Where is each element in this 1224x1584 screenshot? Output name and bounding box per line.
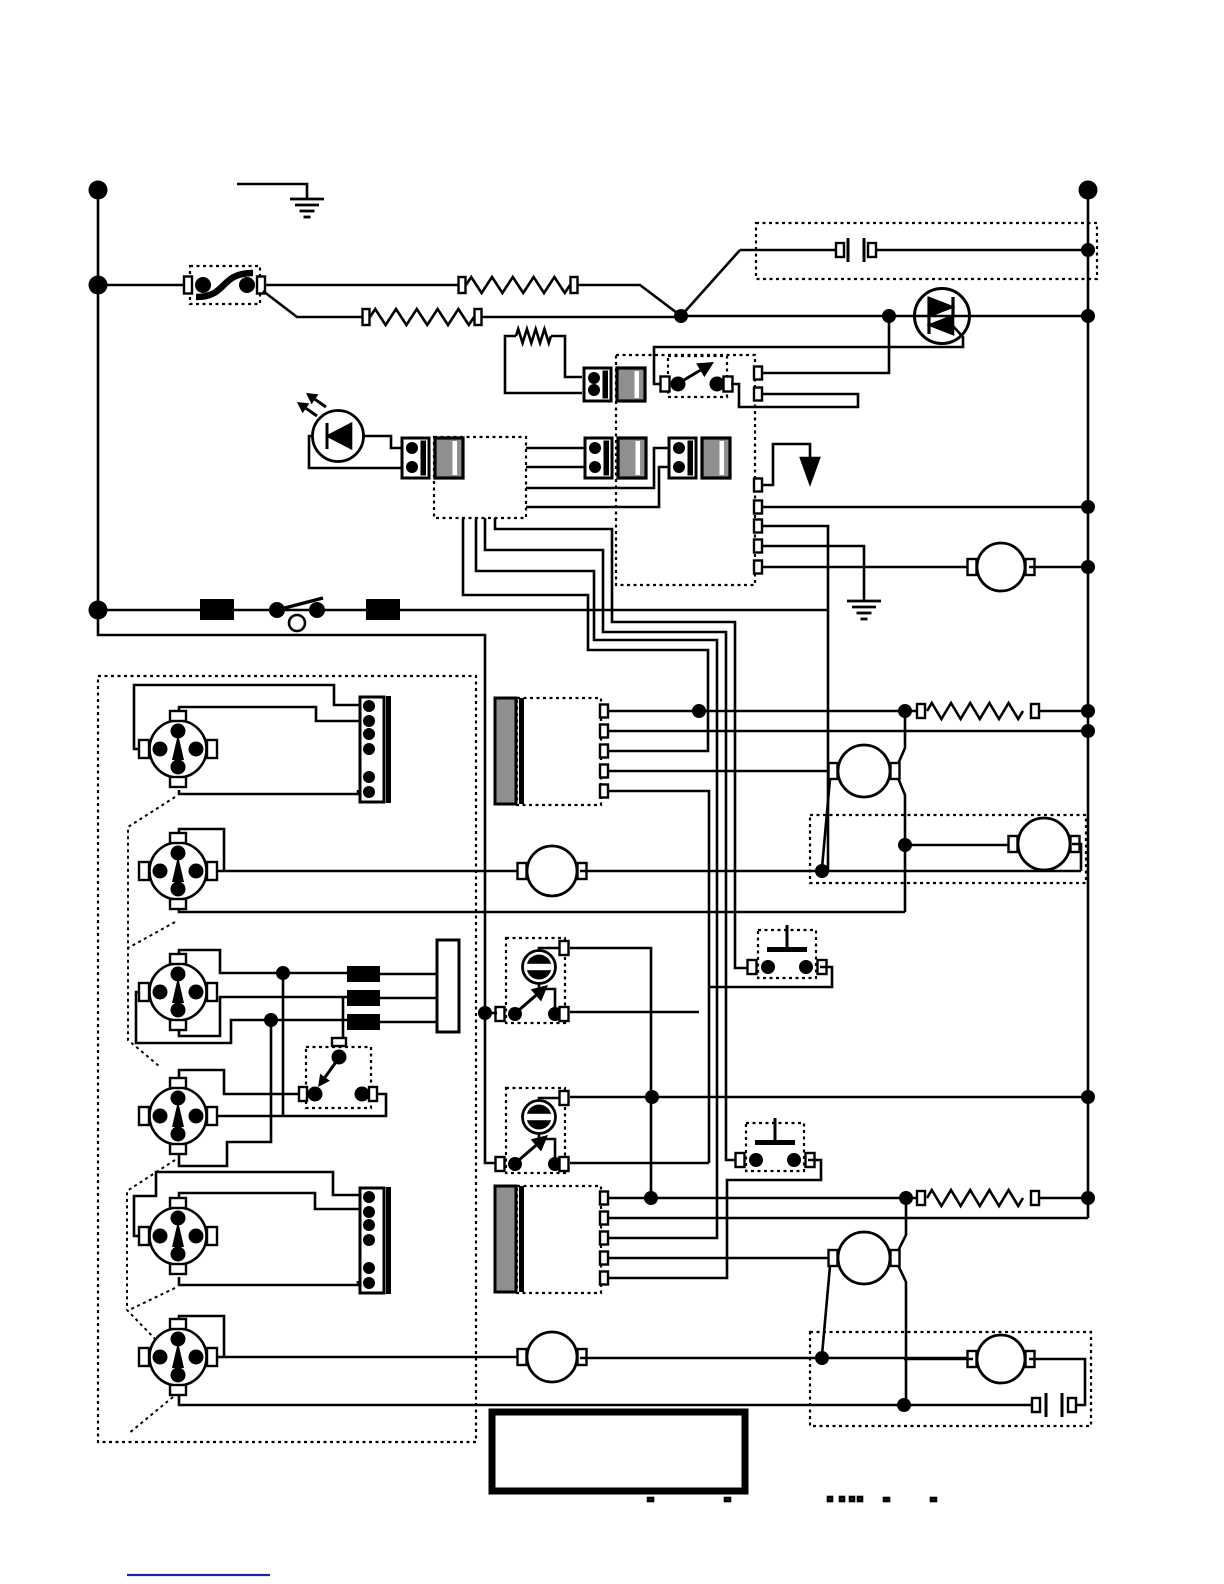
pin B5 — [600, 1272, 608, 1285]
wire (igniter1 S to pin6) — [179, 790, 358, 794]
pin (board pin y507) — [754, 501, 762, 514]
label box — [492, 1412, 745, 1491]
motor M6 (oven fan 2) — [829, 1250, 838, 1266]
pin A4 — [600, 765, 608, 778]
connector P2 (6-pin) — [360, 1188, 384, 1293]
right bus wire — [1087, 190, 1090, 1218]
pin A5 — [600, 785, 608, 798]
motor M3 (oven fan) — [829, 763, 838, 779]
wire — [1029, 566, 1088, 569]
resistor R4 — [917, 704, 925, 718]
wire (switch to igniter4 E) — [216, 1094, 386, 1116]
oven thermostat TH2 (dotted) — [506, 1088, 565, 1173]
connector pair J4 (row2b) — [669, 438, 696, 478]
node — [898, 704, 912, 718]
node (right bus y567) — [1081, 560, 1095, 574]
wire (TH2 top line) — [570, 1096, 1088, 1099]
spark module B (grey connector + dotted box) — [495, 1186, 516, 1292]
fuse F2 — [366, 599, 400, 620]
wire — [526, 466, 585, 469]
wire (igniter4 S riser) — [179, 1020, 271, 1166]
pin A3 — [600, 745, 608, 758]
wire — [580, 870, 1081, 873]
wire (A4 to motor M3) — [608, 770, 832, 773]
wire (M3 tap to M5) — [905, 844, 1016, 847]
push button PB2 (dotted) — [746, 1123, 804, 1171]
triac Q1 — [915, 289, 970, 344]
capacitor C1 — [740, 249, 840, 252]
link (dotted mechanical) — [127, 1160, 175, 1342]
wire — [97, 190, 100, 610]
link (dotted mechanical) — [128, 797, 175, 1066]
wire W2 (harness) — [476, 518, 717, 1238]
node (right bus, capacitor) — [1081, 243, 1095, 257]
wire (triac gate) — [654, 325, 963, 384]
spark switch SW3 (igniter symbol) — [150, 964, 207, 1021]
wire — [607, 1160, 821, 1278]
node — [264, 1013, 278, 1027]
ground (top) — [237, 184, 307, 199]
node (motor M3 tap) — [815, 864, 829, 878]
wire (to L bus) — [762, 526, 828, 610]
control board (dotted outline) — [616, 355, 755, 585]
wire — [380, 973, 437, 976]
wire (A5 riser) — [608, 791, 709, 1163]
wire — [1039, 710, 1088, 713]
node (right bus y1198) — [1081, 1191, 1095, 1205]
pin B2 — [600, 1212, 608, 1225]
bake element (loop bar) — [731, 384, 858, 407]
resistor R2 (second line) — [363, 309, 370, 325]
resistor R5 — [917, 1191, 925, 1205]
ignition bar (electrode block) — [437, 940, 459, 1032]
wire (igniter3 N) — [179, 950, 347, 973]
wire (igniter6 E line) — [217, 1356, 524, 1359]
pin B1 — [600, 1192, 608, 1205]
wire — [762, 566, 973, 569]
oven thermostat TH1 (dotted) — [506, 938, 565, 1023]
wire (TH1 out riser) — [570, 1011, 699, 1014]
spark switch SW6 (igniter symbol) — [150, 1329, 207, 1386]
spark switch SW5 (igniter symbol) — [150, 1208, 207, 1265]
node (motor M6 tap) — [815, 1351, 829, 1365]
choke L2 — [347, 990, 380, 1006]
valve switch SW7 (dotted) — [332, 1038, 346, 1046]
chassis arrow (to ground) — [762, 444, 810, 485]
wire (igniter5 W to pin1) — [134, 1172, 360, 1236]
wire (M3 left drop) — [822, 779, 830, 868]
wire — [380, 997, 437, 1000]
wire (C2 to M7 loop) — [1029, 1359, 1085, 1405]
wire (igniter2 E line) — [217, 870, 524, 873]
node (thermostat feed) — [478, 1006, 492, 1020]
wire (igniter2 S line) — [179, 905, 905, 912]
wire — [526, 467, 669, 507]
wire — [98, 284, 186, 287]
ground (center) — [847, 600, 881, 603]
resistor R1 (top line) — [459, 277, 466, 293]
node — [897, 1398, 911, 1412]
wire — [380, 1021, 437, 1024]
wire (igniter6 S line) — [179, 1390, 904, 1405]
node — [898, 838, 912, 852]
wire (igniter1 N to pin2) — [179, 707, 360, 721]
connector pair J3 (row2a) — [585, 438, 612, 478]
motor M2 (burner motor) — [518, 863, 527, 879]
wire — [526, 447, 585, 450]
wire (main line to triac) — [681, 315, 1088, 318]
switch S1 (door) — [269, 602, 285, 618]
spark switch SW4 (igniter symbol) — [150, 1088, 207, 1145]
wire W3 (harness) — [485, 518, 737, 1160]
pin B4 — [600, 1252, 608, 1265]
wire (M6 right riser) — [898, 1198, 906, 1251]
wire — [580, 1357, 822, 1360]
pin (board pin y373) — [754, 367, 762, 380]
burner group (big dotted outline) — [98, 676, 476, 1442]
wire (igniter4 N to switch) — [179, 1070, 299, 1094]
node (right bus y711) — [1081, 704, 1095, 718]
wire — [265, 284, 459, 287]
wire (igniter5 S to pin6) — [179, 1277, 358, 1285]
node L1 supply (top-left) — [89, 181, 108, 200]
node — [276, 966, 290, 980]
capacitor C2 — [904, 1404, 1034, 1407]
wire (igniter1 W to pin1) — [134, 685, 360, 749]
node (right bus y731) — [1081, 724, 1095, 738]
pin (board pin y546) — [754, 540, 762, 553]
connector P1 (6-pin) — [360, 697, 384, 802]
node — [645, 1090, 659, 1104]
node (L bus corner) — [89, 601, 108, 620]
pin (board pin y485) — [754, 479, 762, 492]
spark module A (grey connector + dotted box) — [495, 698, 516, 804]
wire (TH2 out riser) — [570, 1162, 709, 1165]
wire — [608, 730, 1088, 733]
thermal limiter TOD (dotted box with S-contact) — [190, 266, 260, 304]
wire (riser to L bus) — [827, 610, 830, 871]
wire (TH1 top to riser) — [570, 948, 651, 1198]
node — [644, 1191, 658, 1205]
node — [692, 704, 706, 718]
relay K1 (dotted box) — [668, 356, 727, 397]
wire (to ground) — [762, 546, 864, 601]
wire — [1039, 1197, 1088, 1200]
wire W1 (harness) — [463, 518, 708, 751]
LED DS1 (indicator) — [313, 411, 364, 462]
wire W4 (harness) — [495, 518, 748, 968]
node (left junction) — [89, 276, 108, 295]
wire (LED anode) — [309, 436, 402, 468]
choke L3 — [347, 1014, 380, 1030]
pin B3 — [600, 1232, 608, 1245]
wire (B1 to resistor) — [608, 1197, 917, 1200]
fuse F1 — [200, 599, 234, 620]
wire — [709, 967, 832, 987]
connector pair J2 (LED) — [402, 438, 429, 478]
clock/display board (dotted outline) — [434, 437, 526, 518]
pin A1 — [600, 705, 608, 718]
wire (L bus) — [98, 609, 828, 612]
node B — [882, 309, 896, 323]
wire — [762, 506, 1088, 509]
pin A2 — [600, 725, 608, 738]
push button PB1 (dotted) — [758, 930, 816, 978]
choke L1 — [347, 966, 380, 982]
node (right bus y1097) — [1081, 1090, 1095, 1104]
motor M1 (fan) — [968, 559, 977, 575]
footer marks — [648, 1497, 936, 1501]
motor M7 + capacitor (dotted box) — [810, 1332, 1091, 1426]
wire (M3 right riser) — [898, 711, 905, 764]
wire (igniter3 W loop) — [136, 992, 347, 1043]
pin (board pin y526) — [754, 520, 762, 533]
node (right bus y507) — [1081, 500, 1095, 514]
footer link line — [127, 1574, 270, 1576]
wire (riser: choke row1 to E line) — [282, 973, 285, 1116]
wire (igniter6 N loop) — [179, 1316, 224, 1357]
motor M5 (cooling fan, dotted box) — [810, 815, 1086, 883]
node (right bus) — [1081, 309, 1095, 323]
wire (feed) — [485, 1012, 497, 1015]
wire — [608, 1217, 1088, 1220]
pin (board pin y394) — [754, 388, 762, 401]
wire — [578, 285, 681, 316]
pin (board pin y567) — [754, 561, 762, 574]
wire (diagonal to door capacitor) — [681, 250, 740, 316]
wire (B4 to motor M6) — [608, 1257, 832, 1260]
wire — [822, 1357, 974, 1360]
wire (igniter3 S) — [179, 997, 347, 1036]
wire — [904, 1358, 973, 1361]
node R1 supply (top-right) — [1079, 181, 1098, 200]
wire (lower branch from limiter) — [263, 291, 362, 317]
dotted box (capacitor circuit) — [756, 223, 1097, 279]
wire — [482, 316, 681, 319]
wire (M5 right loop) — [1072, 844, 1081, 871]
node A — [674, 309, 688, 323]
wire (A1 to resistor) — [608, 710, 917, 713]
wire — [526, 448, 669, 488]
spark switch SW1 (igniter symbol) — [150, 721, 207, 778]
wire (M6 left drop) — [822, 1266, 830, 1355]
resistor R3 (loop at clock) — [505, 336, 582, 393]
wire (LED cathode) — [363, 436, 402, 448]
node — [899, 1191, 913, 1205]
wire (feed to burner section) — [98, 610, 497, 1163]
wire (pin to node B) — [762, 316, 889, 373]
motor M4 (burner motor) — [518, 1349, 527, 1365]
spark switch SW2 (igniter symbol) — [150, 843, 207, 900]
wire (to valve switch) — [342, 997, 345, 1039]
connector pair J1 (row1) — [584, 368, 611, 401]
wire (igniter2 N loop) — [179, 829, 224, 872]
wire (igniter5 N to pin2) — [179, 1193, 360, 1209]
